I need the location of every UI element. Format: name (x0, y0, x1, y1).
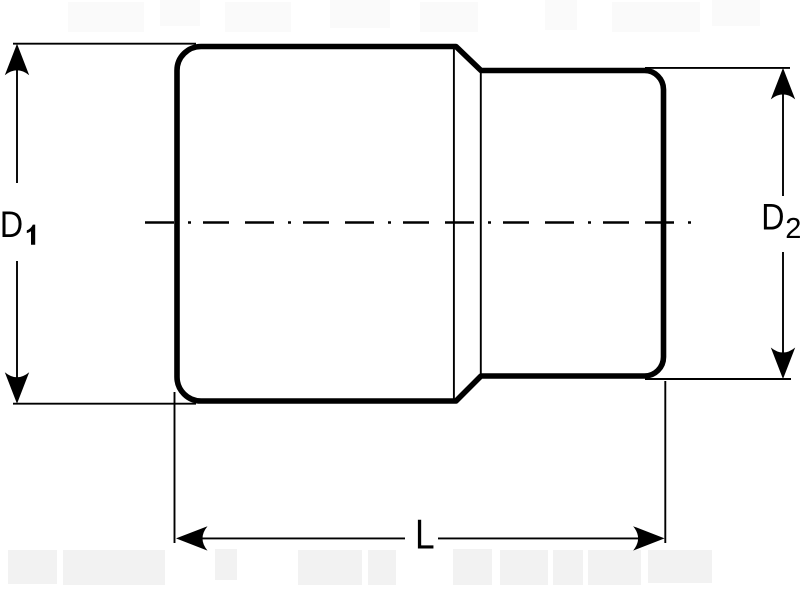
arrowhead L left (176, 526, 208, 550)
faint background artifact blocks (bottom) (8, 549, 712, 585)
svg-text:D: D (0, 205, 23, 246)
dimension line D1 (upper segment) (16, 68, 18, 183)
extension line top-left for D1 (13, 43, 196, 45)
dimension line L (left segment) (200, 537, 405, 539)
dimension line D1 (lower segment) (16, 261, 18, 379)
extension line bottom-left for D1 (13, 403, 196, 405)
edge line at chamfer start (453, 48, 455, 399)
arrowhead D1 down (5, 372, 29, 404)
arrowhead D1 up (5, 44, 29, 75)
socket body outline (177, 47, 664, 402)
svg-text:2: 2 (785, 213, 800, 245)
svg-text:L: L (415, 512, 435, 559)
extension line right for L (664, 381, 666, 543)
dimension line L (right segment) (438, 537, 641, 539)
centerline (dash-dot axis) (145, 221, 691, 224)
arrowhead D2 down (771, 348, 795, 380)
arrowhead D2 up (771, 68, 795, 100)
arrowhead L right (633, 526, 665, 550)
extension line bottom-right for D2 (645, 378, 791, 380)
dimension line D2 (upper segment) (782, 92, 784, 196)
extension line top-right for D2 (645, 67, 790, 69)
svg-text:D: D (761, 198, 784, 239)
extension line left for L (174, 392, 176, 543)
edge line at chamfer end (480, 72, 482, 374)
faint background artifact blocks (top) (68, 0, 760, 32)
dimension line D2 (lower segment) (782, 252, 784, 355)
